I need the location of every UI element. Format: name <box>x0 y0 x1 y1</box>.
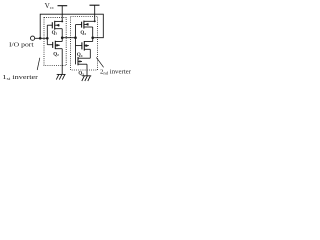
wire 2nd inverter gate rail (also Q5 gate bar) <box>75 25 77 65</box>
wire Vcc stem to Q1 source <box>61 6 63 22</box>
junction at 2nd inverter output <box>91 36 94 39</box>
transistor Q4 (NMOS, 2nd inverter) <box>76 41 93 51</box>
transistor Q3 (PMOS, 2nd inverter) <box>76 21 95 29</box>
leader line for 1st inverter label <box>37 58 40 70</box>
leader line for 2nd inverter label <box>96 57 103 67</box>
junction at Q3 source / Vcc stem <box>94 20 96 22</box>
svg-text:2nd inverter: 2nd inverter <box>100 70 131 76</box>
ground (1st inverter) <box>56 74 65 79</box>
transistor Q1 (PMOS, 1st inverter) <box>47 21 62 30</box>
1st inverter dashed box <box>44 17 66 65</box>
wire 1st inverter output rail (Q1 drain to Q2 drain) <box>61 29 63 42</box>
wire Vcc stem to Q3 source <box>94 5 96 21</box>
wire 2nd inverter output rail (Q3 drain to Q4 drain) <box>92 27 94 42</box>
svg-text:Q1: Q1 <box>52 31 58 36</box>
svg-text:Q3: Q3 <box>80 31 86 36</box>
2nd inverter dashed box <box>71 17 98 71</box>
svg-text:1st inverter: 1st inverter <box>2 74 38 81</box>
I/O port terminal circle <box>30 36 34 40</box>
power Vcc tap 2 (T bar) <box>90 4 100 6</box>
power Vcc tap 1 (T bar) <box>58 5 68 7</box>
transistor Q2 (NMOS, 1st inverter) <box>47 41 62 49</box>
transistor Q5 (NMOS, 2nd inverter, bottom) <box>78 57 90 65</box>
ground (2nd inverter) <box>82 76 91 81</box>
junction at 1st inverter gate rail <box>46 37 49 40</box>
junction at I/O riser <box>39 37 42 40</box>
junction at Q1 source / Vcc stem <box>61 20 63 22</box>
wire Q5 source to ground <box>86 64 88 76</box>
wire 1st inverter gate rail <box>46 25 48 45</box>
wire Q2 source to ground <box>61 49 63 75</box>
wire I/O port feedback routing (up, across top, down right side, to 2nd inverter output) <box>40 14 103 38</box>
wire I/O port to 1st inverter input <box>35 37 48 39</box>
svg-text:I/O port: I/O port <box>9 43 34 49</box>
junction at 1st inverter output <box>61 36 64 39</box>
wire Q4 source to Q5 drain <box>89 49 91 58</box>
junction at 2nd inverter gate rail <box>74 36 77 39</box>
wire 1st inverter output to 2nd inverter input <box>62 37 75 39</box>
svg-text:Q2: Q2 <box>53 52 59 57</box>
